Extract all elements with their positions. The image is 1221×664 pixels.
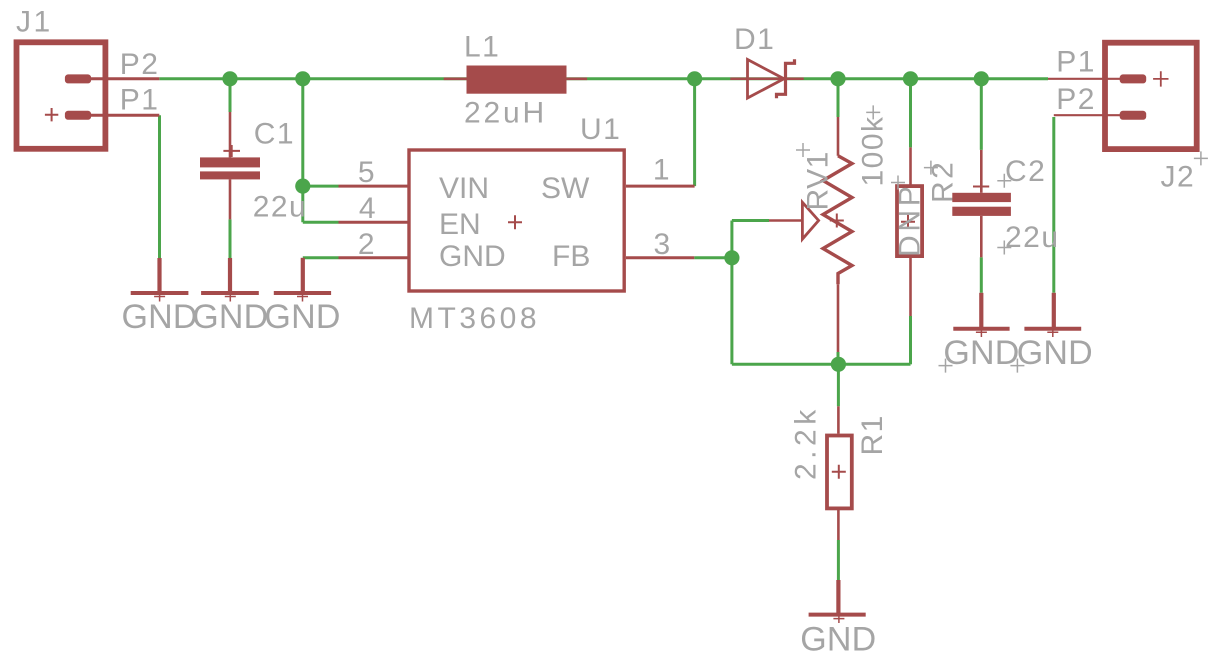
svg-text:L1: L1 [464, 31, 500, 64]
wire VIN branch to U1 pins 5 and 4 [303, 79, 339, 222]
svg-text:5: 5 [358, 156, 376, 189]
origin cross RV1 [796, 143, 810, 157]
junction dot bottom rail tee [831, 357, 846, 372]
svg-text:D1: D1 [734, 23, 775, 56]
wire R1 column [837, 364, 840, 580]
ground symbol GND 6 (R1) [809, 580, 866, 623]
wire R2 column [909, 79, 912, 365]
svg-text:22u: 22u [1005, 221, 1060, 254]
origin cross GND 5 label [1010, 359, 1024, 373]
svg-text:GND: GND [192, 298, 268, 336]
diode D1 zener [730, 59, 803, 98]
svg-text:GND: GND [439, 240, 506, 273]
ground symbol GND 5 (J2 P2) [1024, 293, 1081, 337]
wire net VIN top rail [159, 77, 1048, 80]
svg-text:FB: FB [552, 240, 590, 273]
svg-text:R1: R1 [856, 414, 889, 455]
capacitor C2 [952, 150, 1011, 257]
svg-text:2: 2 [358, 228, 376, 261]
junction dot top rail at C1 [222, 71, 237, 86]
junction dot top rail at C2 [974, 71, 989, 86]
junction dot FB tee [724, 250, 739, 265]
svg-text:GND: GND [122, 298, 198, 336]
svg-text:RV1: RV1 [802, 151, 835, 210]
origin cross 22u value [997, 241, 1011, 255]
svg-text:GND: GND [264, 298, 340, 336]
svg-text:100k: 100k [857, 115, 890, 186]
origin cross J2 label [1194, 151, 1208, 165]
svg-text:DNP: DNP [894, 183, 927, 257]
capacitor C1 [200, 112, 260, 219]
svg-text:4: 4 [359, 192, 377, 225]
svg-text:C2: C2 [1005, 155, 1046, 188]
origin cross 100k [866, 105, 880, 119]
wire RV1 column [837, 79, 840, 365]
svg-text:P1: P1 [1056, 46, 1096, 79]
resistor R1 [827, 406, 852, 540]
svg-text:EN: EN [439, 208, 481, 241]
ground symbol GND 1 (J1 P1) [131, 258, 189, 302]
svg-text:3: 3 [654, 228, 672, 261]
connector J1 [17, 42, 160, 149]
wire SW net vertical to U1 pin 1 [693, 79, 696, 186]
junction dot VIN pin 5 tee [295, 179, 310, 194]
svg-text:J1: J1 [16, 6, 53, 39]
svg-text:MT3608: MT3608 [409, 302, 540, 335]
svg-text:VIN: VIN [439, 172, 489, 205]
origin cross C2 label [997, 174, 1011, 188]
connector J2 [1048, 43, 1197, 149]
ground symbol GND 2 (C1) [201, 258, 259, 302]
origin cross R2 box [891, 176, 905, 190]
junction dot top rail at R2 [903, 71, 918, 86]
junction dot top rail at RV1 [830, 71, 845, 86]
svg-text:SW: SW [541, 172, 590, 205]
wire C2 column [980, 79, 983, 293]
svg-text:U1: U1 [580, 113, 621, 146]
svg-text:GND: GND [1017, 334, 1093, 372]
svg-text:P2: P2 [120, 48, 160, 81]
inductor L1 [444, 66, 587, 94]
svg-text:C1: C1 [254, 118, 295, 151]
svg-text:1: 1 [653, 154, 671, 187]
svg-text:GND: GND [943, 334, 1019, 372]
IC U1 MT3608 [339, 150, 695, 291]
potentiometer RV1 [769, 117, 852, 352]
svg-text:GND: GND [800, 621, 876, 659]
wire GND net from J1 P1 vertical [158, 115, 161, 258]
wire U1 pin 2 to GND elbow [303, 256, 339, 259]
junction dot top rail at VIN branch [295, 71, 310, 86]
svg-text:2.2k: 2.2k [790, 405, 823, 480]
wire bottom rail [732, 363, 911, 366]
ground symbol GND 3 (U1 pin 2) [274, 258, 331, 302]
wire J2 P2 to GND [1052, 117, 1055, 293]
svg-text:P1: P1 [120, 84, 160, 117]
origin cross GND 4 label [939, 359, 953, 373]
junction dot top rail at SW [687, 71, 702, 86]
resistor R2 DNP [897, 147, 922, 316]
svg-text:J2: J2 [1161, 161, 1196, 194]
svg-text:P2: P2 [1056, 83, 1096, 116]
svg-text:22uH: 22uH [464, 97, 547, 130]
ground symbol GND 4 (C2) [953, 293, 1009, 337]
svg-text:22u: 22u [253, 191, 308, 224]
wire FB net [694, 221, 769, 365]
wire C1 column [229, 79, 232, 258]
origin cross R2 label [924, 161, 938, 175]
